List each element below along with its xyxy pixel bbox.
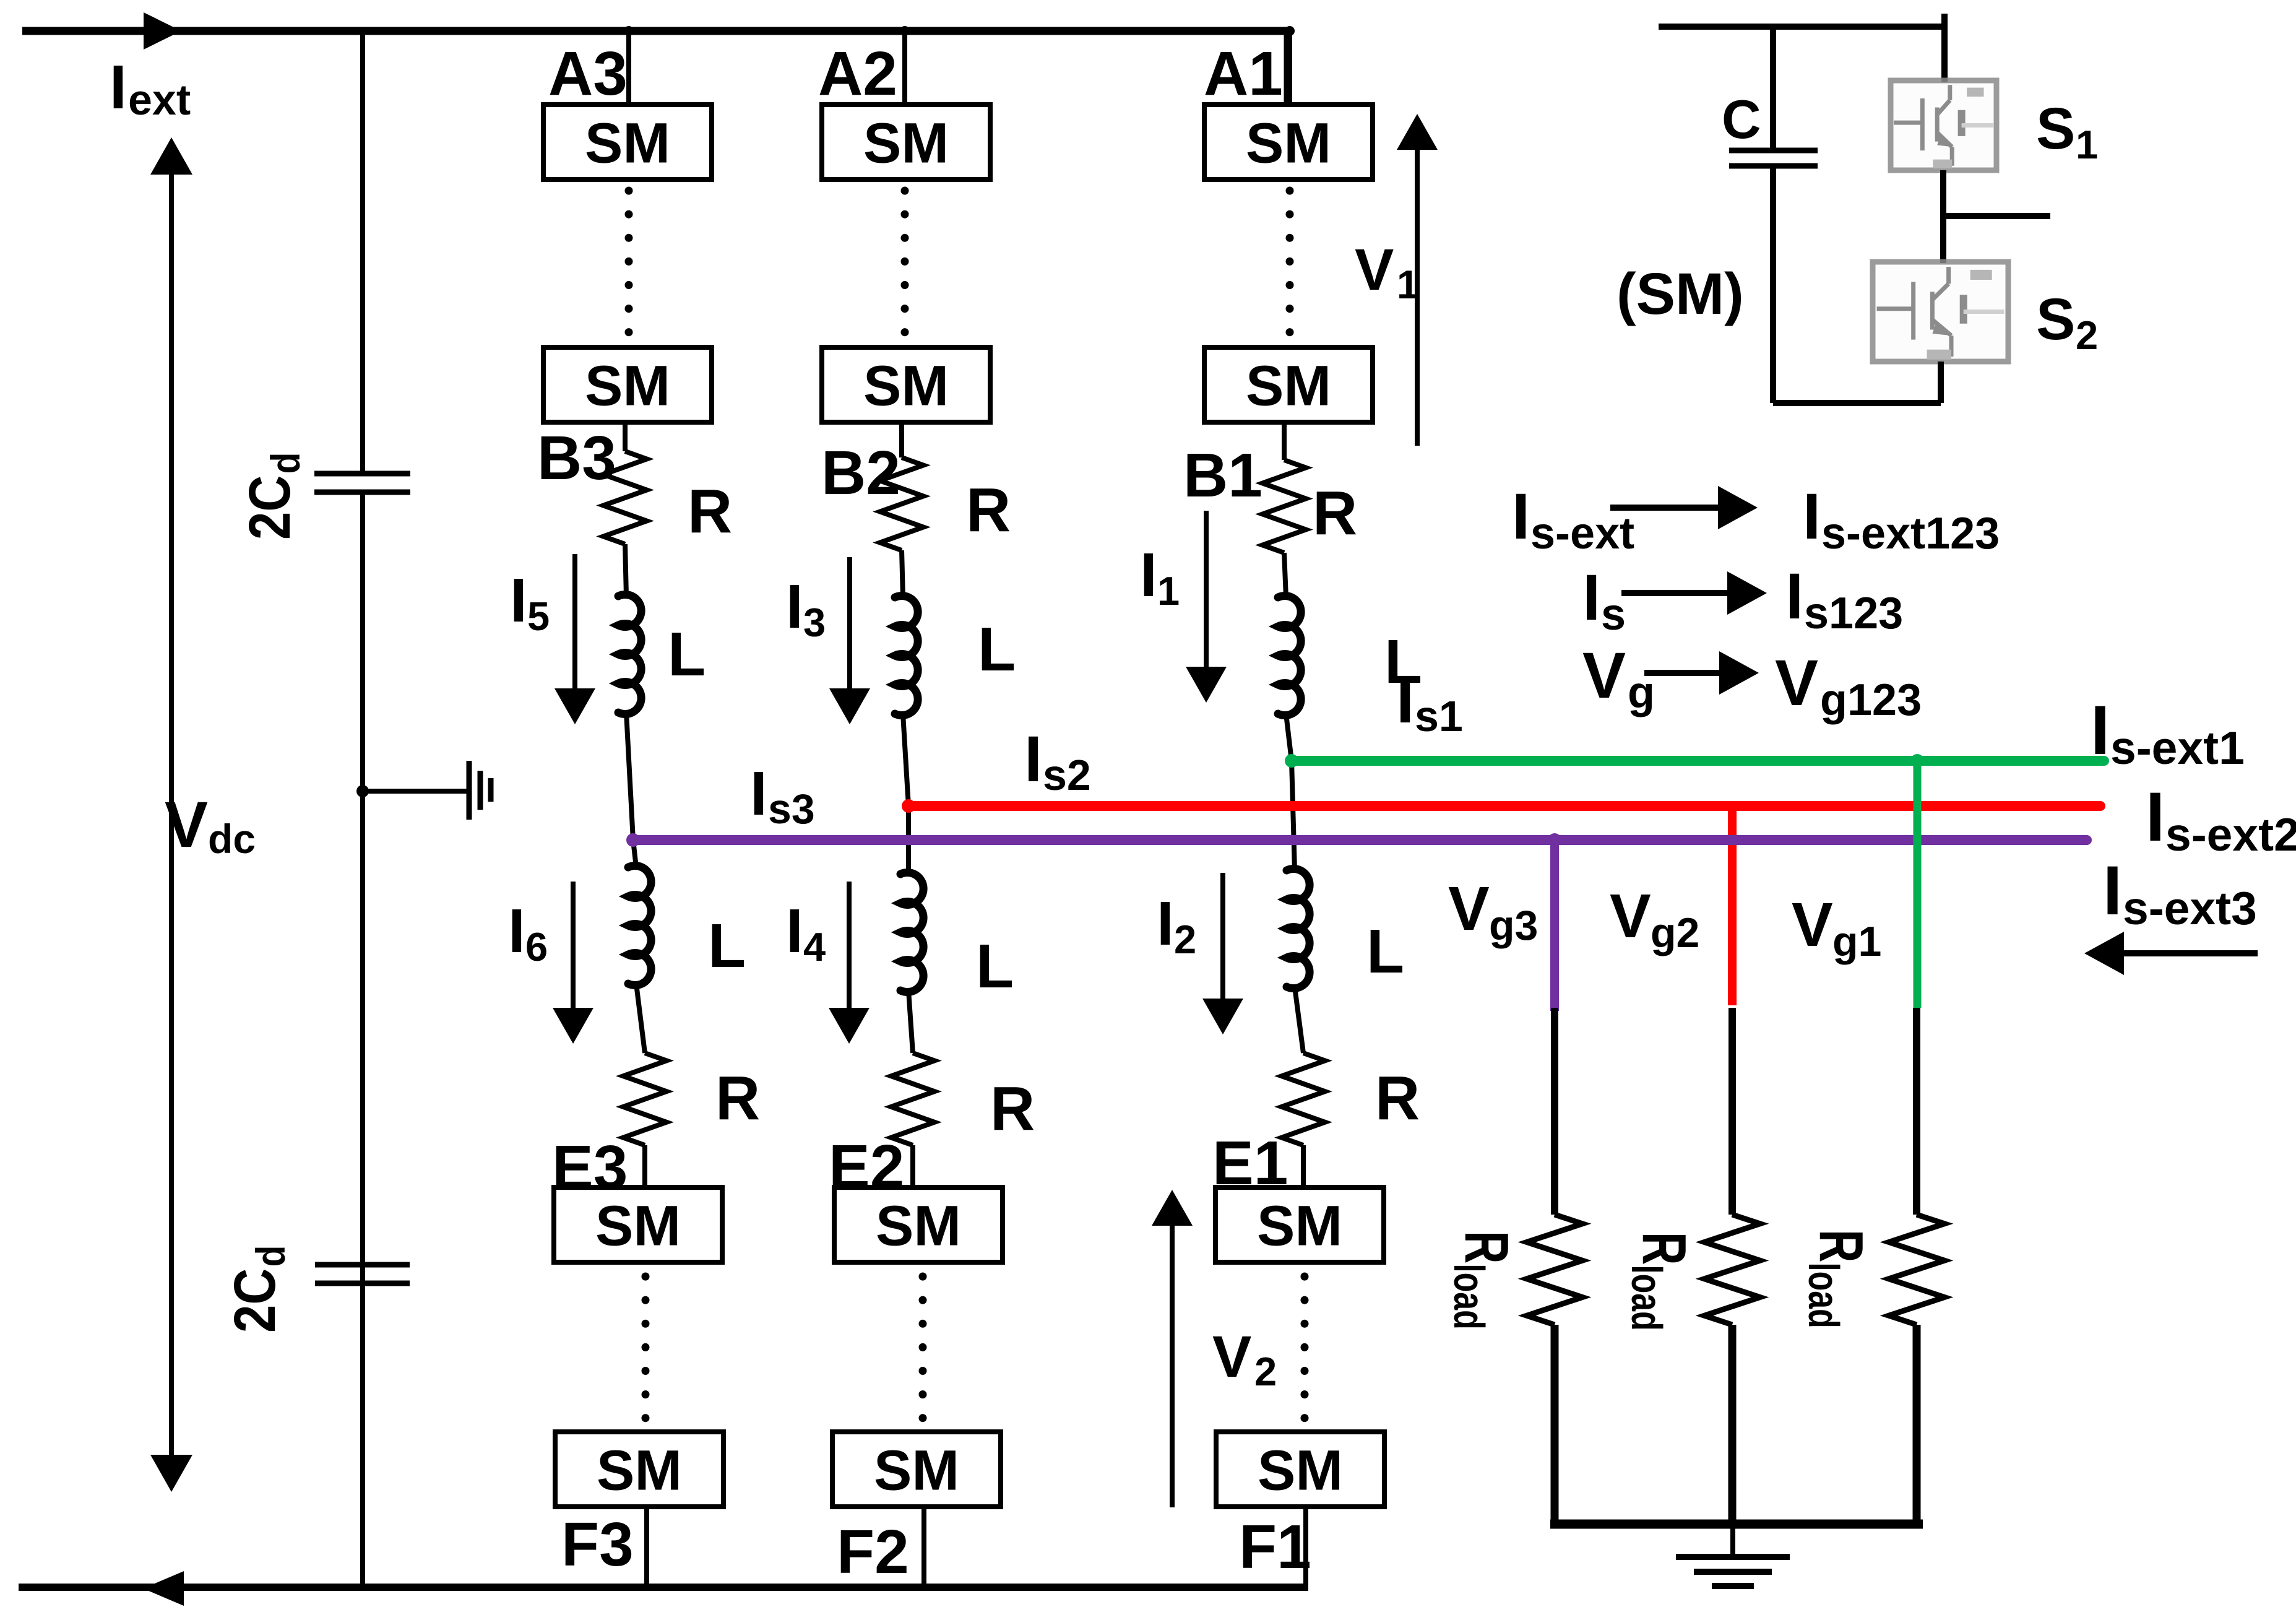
svg-text:R: R [990, 1074, 1035, 1143]
wire: top DC bus rail [22, 12, 1290, 106]
svg-text:SM: SM [597, 1439, 682, 1502]
label A2 [818, 39, 897, 108]
svg-text:A1: A1 [1204, 39, 1283, 108]
wire: SM detail top rail [1659, 14, 1944, 30]
svg-text:I: I [508, 896, 525, 966]
submodule SM F1 (lower arm bottom) [1216, 1432, 1384, 1507]
svg-text:SM: SM [585, 355, 670, 418]
wire: SM detail capacitor branch (upper) [1770, 27, 1776, 150]
svg-text:V: V [1775, 647, 1818, 719]
label Rload (2) [1622, 1232, 1699, 1331]
svg-text:E3: E3 [552, 1133, 628, 1202]
wire: lower inductor to resistor (arm 2) [908, 990, 913, 1053]
inductor L (lower arm 3) [628, 866, 651, 986]
label Is-ext2 [2146, 778, 2296, 860]
legend arrow Is to Is123 [1621, 571, 1767, 615]
label Is-ext123 [1803, 480, 2000, 558]
label F1 [1239, 1512, 1311, 1582]
submodule SM A2 (upper arm top) [822, 105, 990, 180]
label I_ext [110, 53, 191, 124]
svg-text:2: 2 [2076, 313, 2098, 358]
svg-text:V: V [1355, 237, 1394, 303]
svg-text:g123: g123 [1820, 675, 1922, 725]
label 2Cd (top) [236, 453, 309, 540]
resistor Rload2 [1704, 1215, 1760, 1325]
svg-text:I: I [1785, 560, 1803, 633]
label L (upper arm 3) [668, 620, 706, 689]
svg-text:s2: s2 [1043, 751, 1091, 799]
label Is3 [750, 759, 815, 833]
svg-text:ext: ext [128, 76, 191, 124]
svg-text:1: 1 [2076, 122, 2098, 167]
wire: Rload1 upper lead [1913, 1008, 1920, 1215]
submodule SM A1 (upper arm top) [1204, 105, 1373, 180]
submodule SM A3 (upper arm top) [543, 105, 712, 180]
label Vg123 [1775, 647, 1922, 725]
label R (lower arm 2) [990, 1074, 1035, 1143]
svg-text:dc: dc [208, 816, 256, 862]
svg-text:5: 5 [527, 594, 550, 639]
svg-text:(SM): (SM) [1616, 261, 1744, 327]
wire: lower inductor to resistor (arm 3) [636, 984, 645, 1053]
wire: phase node 3 to lower inductor [633, 840, 636, 867]
svg-text:4: 4 [803, 924, 826, 969]
label I6 [508, 896, 548, 969]
wire: bottom DC bus rail [19, 1571, 1308, 1606]
svg-text:R: R [715, 1064, 760, 1133]
svg-text:I: I [2146, 778, 2165, 856]
capacitor C (submodule) [1729, 150, 1818, 166]
voltage arrow V2 [1152, 1190, 1193, 1507]
wire: resistor to SM E1 [1301, 1145, 1306, 1187]
svg-text:load: load [1622, 1265, 1670, 1330]
label Vdc [165, 789, 256, 862]
wire: SM B1 to resistor R (arm 1 upper) [1282, 422, 1287, 460]
svg-text:F1: F1 [1239, 1512, 1311, 1582]
wire: top bus to SM A3 [624, 26, 634, 105]
svg-text:L: L [708, 911, 746, 981]
svg-text:SM: SM [874, 1439, 959, 1502]
wire: load common bottom rail [1550, 1520, 1923, 1529]
wire: red net Is-ext2 vertical drop to Rload2 [1728, 806, 1737, 1005]
label L (lower arm 1) [1366, 917, 1404, 986]
wire: S1 to S2 with midpoint stub [1943, 170, 2050, 263]
wire: top rail to switch S1 [1941, 27, 1948, 82]
label R (upper arm 3) [688, 477, 732, 546]
label E2 [829, 1132, 904, 1202]
wire: SM F3 to bottom bus [644, 1507, 649, 1587]
resistor R (lower arm 1) [1282, 1053, 1325, 1145]
label Vg [1582, 639, 1655, 717]
resistor R (lower arm 2) [891, 1053, 934, 1145]
svg-text:R: R [1806, 1229, 1876, 1262]
wire: purple phase-3 output net (node Is3) [626, 833, 2087, 847]
svg-text:E2: E2 [829, 1132, 904, 1202]
inductor L (upper arm 1) [1278, 596, 1301, 716]
svg-text:d: d [263, 453, 309, 474]
label A1 [1204, 39, 1283, 108]
svg-text:SM: SM [1258, 1439, 1343, 1502]
capacitor 2Cd (top) [314, 474, 410, 492]
svg-text:I: I [1396, 664, 1414, 737]
svg-text:A2: A2 [818, 39, 897, 108]
label Is-ext3 [2103, 852, 2257, 934]
switch S1 (IGBT module) [1891, 80, 1996, 170]
svg-text:s123: s123 [1804, 589, 1903, 638]
svg-text:SM: SM [863, 112, 949, 175]
current arrow I4 [829, 882, 870, 1044]
svg-text:load: load [1444, 1263, 1493, 1329]
dotted SM chain upper arm A1-B1 [1286, 191, 1294, 344]
svg-text:s-ext3: s-ext3 [2123, 882, 2257, 934]
svg-text:I: I [1512, 480, 1530, 553]
wire: red phase-2 output net (node Is2) [902, 799, 2100, 813]
svg-text:L: L [976, 932, 1014, 1001]
dotted SM chain lower arm E3-F3 [642, 1276, 650, 1434]
submodule SM E2 (lower arm top) [834, 1187, 1003, 1262]
svg-text:d: d [248, 1246, 294, 1267]
svg-text:F2: F2 [837, 1517, 909, 1587]
wire: resistor to inductor (arm 3 upper) [625, 544, 626, 596]
label R (lower arm 1) [1375, 1064, 1420, 1133]
wire: S2 to SM detail bottom rail [1773, 362, 1941, 403]
wire: lower inductor to resistor (arm 1) [1295, 987, 1303, 1053]
svg-text:s1: s1 [1415, 692, 1463, 740]
wire: resistor to inductor (arm 1 upper) [1284, 553, 1286, 597]
submodule SM E3 (lower arm top) [554, 1187, 722, 1262]
svg-text:SM: SM [863, 355, 949, 418]
resistor R (upper arm 3) [603, 451, 647, 544]
inductor L (lower arm 1) [1287, 869, 1310, 989]
svg-text:V: V [1582, 639, 1626, 712]
label V1 [1355, 237, 1419, 307]
voltage arrow Vdc [150, 137, 192, 1492]
resistor Rload3 [1527, 1215, 1582, 1325]
svg-text:2C: 2C [222, 1268, 287, 1333]
svg-text:L: L [668, 620, 706, 689]
label I5 [510, 566, 550, 639]
svg-text:SM: SM [585, 112, 670, 175]
wire: top bus to SM A2 [900, 26, 910, 105]
svg-text:s: s [1601, 590, 1626, 639]
label L (lower arm 3) [708, 911, 746, 981]
svg-text:g1: g1 [1832, 918, 1881, 965]
svg-text:s3: s3 [768, 786, 815, 833]
label R (upper arm 1) [1313, 479, 1357, 548]
label F3 [561, 1510, 634, 1579]
wire: DC-link left bus [360, 27, 365, 1587]
current arrow Is-ext3 (into node) [2084, 932, 2258, 975]
label R (upper arm 2) [966, 475, 1011, 545]
svg-text:S: S [2036, 287, 2075, 352]
wire: inductor to phase node 3 [626, 713, 633, 840]
submodule SM F2 (lower arm bottom) [832, 1432, 1001, 1507]
svg-text:B1: B1 [1183, 441, 1262, 510]
svg-text:L: L [978, 615, 1016, 684]
svg-text:V: V [165, 789, 208, 861]
label I4 [786, 896, 826, 969]
legend arrow Is-ext to Is-ext123 [1610, 486, 1758, 529]
svg-text:g3: g3 [1489, 902, 1538, 949]
label C [1722, 89, 1761, 150]
svg-text:3: 3 [803, 600, 826, 645]
label Vg3 [1448, 874, 1538, 949]
svg-text:I: I [2091, 691, 2110, 769]
svg-text:I: I [786, 572, 803, 641]
resistor Rload1 [1889, 1215, 1944, 1325]
current arrow I6 [553, 882, 593, 1044]
label Rload (1) [1444, 1231, 1522, 1330]
svg-text:s-ext1: s-ext1 [2110, 722, 2245, 774]
wire: SM B2 to resistor R (arm 2 upper) [899, 422, 904, 457]
wire: SM F1 to bottom bus [1303, 1507, 1308, 1587]
label Is123 [1785, 560, 1903, 638]
svg-text:R: R [1313, 479, 1357, 548]
legend arrow Vg to Vg123 [1644, 651, 1759, 695]
svg-text:R: R [966, 475, 1011, 545]
svg-text:I: I [750, 759, 767, 828]
svg-text:C: C [1722, 89, 1761, 150]
label S1 [2036, 96, 2098, 167]
label V2 [1212, 1324, 1277, 1394]
svg-text:g2: g2 [1651, 909, 1699, 956]
svg-text:R: R [1452, 1231, 1522, 1263]
inductor L (upper arm 2) [895, 596, 918, 716]
label 2Cd (bottom) [222, 1246, 294, 1333]
submodule SM B2 (upper arm bottom) [822, 347, 990, 422]
switch S2 (IGBT module) [1873, 262, 2008, 362]
wire: Rload2 lower lead [1728, 1325, 1737, 1524]
label L (upper arm 2) [978, 615, 1016, 684]
wire: Rload3 lower lead [1551, 1325, 1559, 1524]
svg-text:V: V [1792, 890, 1833, 960]
label Vg2 [1610, 882, 1699, 956]
wire: resistor to SM E2 [910, 1145, 915, 1187]
label E1 [1212, 1129, 1288, 1198]
wire: purple net Is-ext3 vertical drop to Rload3 [1550, 840, 1559, 1011]
wire: Rload2 upper lead [1728, 1008, 1736, 1215]
capacitor 2Cd (bottom) [315, 1265, 410, 1283]
svg-text:SM: SM [595, 1195, 681, 1258]
svg-text:2: 2 [1174, 917, 1196, 962]
svg-text:2C: 2C [236, 475, 302, 540]
ground (load star point) [1676, 1528, 1790, 1586]
wire: SM B3 to resistor R (arm 3 upper) [623, 422, 628, 451]
svg-text:I: I [1024, 723, 1042, 795]
label Is [1582, 561, 1626, 639]
wire: phase node 1 to lower inductor [1292, 761, 1295, 870]
svg-text:I: I [786, 896, 803, 966]
label R (lower arm 3) [715, 1064, 760, 1133]
svg-text:1: 1 [1397, 262, 1419, 307]
current arrow I5 [555, 554, 595, 724]
wire: Rload3 upper lead [1551, 1008, 1558, 1215]
resistor R (upper arm 2) [880, 457, 923, 550]
label I2 [1157, 889, 1196, 962]
svg-text:F3: F3 [561, 1510, 634, 1579]
dotted SM chain upper arm A2-B2 [901, 191, 909, 344]
label Is2 [1024, 723, 1091, 799]
svg-text:2: 2 [1254, 1349, 1277, 1394]
wire: SM F2 to bottom bus [921, 1507, 926, 1587]
svg-text:B3: B3 [537, 423, 616, 493]
svg-text:load: load [1799, 1262, 1847, 1328]
svg-text:I: I [1140, 540, 1157, 610]
svg-text:I: I [110, 53, 127, 122]
label B2 [821, 438, 900, 508]
resistor R (upper arm 1) [1262, 460, 1306, 553]
wire: Rload1 lower lead [1913, 1325, 1921, 1524]
submodule SM B3 (upper arm bottom) [543, 347, 712, 422]
label L (lower arm 2) [976, 932, 1014, 1001]
wire: inductor to phase node 2 [903, 714, 908, 806]
svg-text:SM: SM [1257, 1195, 1342, 1258]
label Is-ext1 [2091, 691, 2245, 774]
wire: SM detail capacitor branch (lower) [1770, 166, 1776, 403]
label S2 [2036, 287, 2098, 358]
label A3 [548, 39, 628, 108]
inductor L (lower arm 2) [900, 873, 923, 992]
submodule SM F3 (lower arm bottom) [555, 1432, 723, 1507]
resistor R (lower arm 3) [623, 1053, 667, 1145]
svg-text:B2: B2 [821, 438, 900, 508]
svg-text:I: I [1157, 889, 1174, 958]
wire: top bus to SM A1 [1285, 26, 1295, 105]
svg-text:A3: A3 [548, 39, 628, 108]
voltage arrow V1 [1397, 114, 1438, 446]
svg-text:SM: SM [1246, 355, 1331, 418]
svg-text:S: S [2036, 96, 2075, 162]
label Is1 [1396, 664, 1463, 740]
wire: green net Is-ext1 vertical drop to Rload1 [1910, 754, 1924, 1008]
wire: resistor to inductor (arm 2 upper) [902, 550, 903, 597]
label Is-ext [1512, 480, 1634, 558]
svg-text:R: R [1629, 1232, 1699, 1265]
label L (upper arm 1) [1384, 627, 1422, 696]
svg-text:V: V [1610, 882, 1651, 951]
svg-text:R: R [1375, 1064, 1420, 1133]
dotted SM chain lower arm E2-F2 [919, 1276, 927, 1434]
ground (DC midpoint) [356, 761, 491, 820]
dotted SM chain upper arm A3-B3 [625, 191, 633, 344]
current arrow I3 [829, 557, 870, 724]
svg-text:SM: SM [1246, 112, 1331, 175]
wire: green phase-1 output net (node Is1) [1285, 754, 2104, 768]
svg-text:L: L [1366, 917, 1404, 986]
dotted SM chain lower arm E1-F1 [1301, 1276, 1309, 1434]
inductor L (upper arm 3) [618, 595, 641, 714]
svg-text:s-ext123: s-ext123 [1821, 509, 2000, 558]
svg-text:I: I [2103, 852, 2122, 929]
svg-text:E1: E1 [1212, 1129, 1288, 1198]
submodule SM E1 (lower arm top) [1215, 1187, 1384, 1262]
label B3 [537, 423, 616, 493]
label (SM) [1616, 261, 1744, 327]
svg-text:I: I [510, 566, 527, 635]
svg-text:1: 1 [1157, 568, 1180, 613]
current arrow I1 [1186, 511, 1227, 703]
svg-text:I: I [1803, 480, 1821, 553]
label B1 [1183, 441, 1262, 510]
svg-text:V: V [1212, 1324, 1251, 1390]
wire: inductor to phase node 1 [1286, 714, 1292, 761]
svg-text:I: I [1582, 561, 1600, 634]
svg-text:s-ext: s-ext [1530, 509, 1634, 558]
label F2 [837, 1517, 909, 1587]
svg-text:s-ext2: s-ext2 [2165, 808, 2296, 860]
label I3 [786, 572, 826, 645]
label I1 [1140, 540, 1180, 613]
svg-text:SM: SM [876, 1195, 961, 1258]
svg-text:6: 6 [525, 924, 548, 969]
label Vg1 [1792, 890, 1881, 965]
wire: phase node 2 to lower inductor [906, 806, 911, 874]
svg-text:V: V [1448, 874, 1490, 943]
current arrow I2 [1202, 873, 1243, 1034]
label Rload (3) [1799, 1229, 1876, 1328]
wire: resistor to SM E3 [642, 1145, 647, 1187]
svg-text:R: R [688, 477, 732, 546]
submodule SM B1 (upper arm bottom) [1204, 347, 1373, 422]
label E3 [552, 1133, 628, 1202]
